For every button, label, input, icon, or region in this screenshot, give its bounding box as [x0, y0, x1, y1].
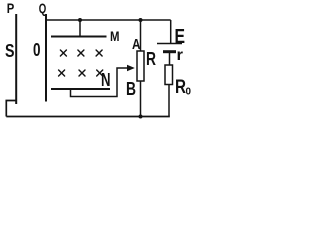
svg-text:S: S: [5, 41, 15, 61]
wire B side: [140, 81, 142, 117]
wiper arrowhead: [127, 65, 135, 72]
plate M: [51, 36, 107, 38]
wire R0 to bottom: [168, 85, 170, 117]
wire N to wiper: [71, 68, 129, 97]
svg-text:r: r: [177, 47, 184, 64]
wire left step: [6, 101, 16, 117]
svg-text:P: P: [7, 0, 15, 16]
wire bottom: [6, 116, 170, 118]
svg-text:0: 0: [186, 86, 192, 98]
battery E long plate: [157, 43, 182, 45]
plate P/S: [15, 14, 17, 104]
junction dot top M: [78, 18, 82, 22]
wire battery to R0: [169, 53, 171, 65]
wire junction to M: [79, 20, 81, 37]
field cross 1: [60, 50, 66, 56]
field cross 5: [79, 70, 85, 76]
svg-text:B: B: [126, 79, 136, 99]
junction dot bottom B: [139, 115, 143, 119]
svg-text:M: M: [110, 28, 120, 44]
svg-text:R: R: [146, 49, 156, 69]
svg-text:0: 0: [33, 40, 41, 60]
field cross 6: [97, 70, 103, 76]
plate Q/O: [45, 14, 47, 102]
field cross 4: [59, 70, 65, 76]
plate N: [51, 88, 110, 90]
svg-text:Q: Q: [39, 0, 47, 16]
battery E short plate: [163, 50, 176, 53]
wire battery drop: [170, 20, 172, 43]
svg-text:A: A: [132, 36, 141, 53]
junction dot top A: [139, 18, 143, 22]
svg-text:E: E: [175, 26, 186, 48]
wire A side: [140, 20, 142, 51]
resistor R box: [137, 51, 144, 81]
wire top: [46, 19, 171, 21]
field cross 2: [78, 50, 84, 56]
svg-text:N: N: [101, 70, 111, 90]
field cross 3: [96, 50, 102, 56]
resistor R0 box: [165, 65, 173, 85]
